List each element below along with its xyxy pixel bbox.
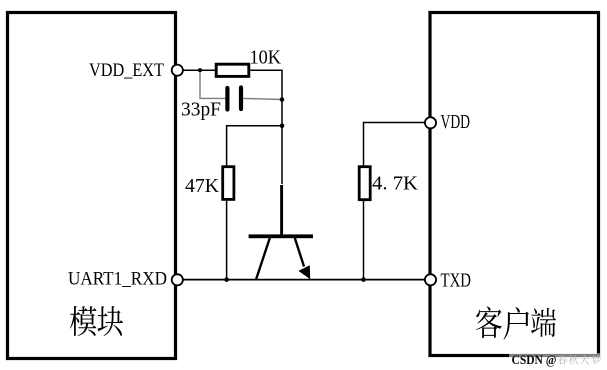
- wire cap right lead (gray): [243, 98, 282, 99]
- wire base-node horizontal: [227, 126, 282, 166]
- transistor Q1 base lead: [280, 185, 283, 235]
- svg-text:4. 7K: 4. 7K: [372, 173, 419, 195]
- svg-text:47K: 47K: [185, 175, 220, 197]
- wire UART1_RXD to TXD rail: [183, 279, 426, 281]
- junction base column / R2 branch: [280, 124, 285, 129]
- capacitor C1 right plate: [239, 88, 243, 110]
- wire VDD pin to R3 top: [364, 123, 426, 167]
- resistor R3 4.7K: [359, 167, 370, 200]
- watermark backdrop: [509, 353, 603, 365]
- wire cap left lead (gray): [200, 70, 225, 98]
- junction R2 / rail: [224, 277, 229, 282]
- svg-text:UART1_RXD: UART1_RXD: [68, 269, 167, 290]
- capacitor C1 left plate: [225, 88, 229, 110]
- pin VDD terminal: [425, 117, 436, 128]
- svg-text:VDD_EXT: VDD_EXT: [89, 60, 164, 81]
- resistor R2 47K: [223, 167, 234, 200]
- label 客户端 (client): [476, 307, 556, 340]
- resistor R1 10K: [216, 64, 249, 76]
- wire R3 bottom to rail: [363, 200, 365, 280]
- svg-text:10K: 10K: [250, 47, 282, 69]
- pin TXD terminal: [425, 274, 436, 285]
- transistor Q1 base bar: [249, 234, 313, 238]
- svg-text:CSDN @: CSDN @: [512, 353, 557, 367]
- pin VDD_EXT terminal: [172, 65, 183, 76]
- junction at VDD_EXT/R1/C1 node: [198, 68, 202, 72]
- watermark CSDN @春秋大梦: [512, 353, 602, 367]
- module box (模块): [8, 13, 176, 359]
- svg-text:33pF: 33pF: [181, 99, 221, 121]
- transistor Q1 emitter leg: [295, 238, 304, 267]
- pin UART1_RXD terminal: [172, 274, 183, 285]
- transistor Q1 emitter arrowhead: [298, 265, 310, 279]
- transistor Q1 collector leg: [256, 238, 270, 279]
- label 模块 (module): [70, 306, 123, 336]
- svg-text:VDD: VDD: [441, 111, 471, 133]
- client box (客户端): [430, 13, 599, 356]
- junction R3 / rail: [361, 277, 366, 282]
- wire VDD_EXT pin to R1: [182, 69, 216, 71]
- wire R1 right to corner down to base column: [250, 70, 283, 184]
- junction C1 right / base column: [280, 97, 285, 102]
- wire R2 bottom to RXD rail: [226, 200, 228, 280]
- svg-text:TXD: TXD: [441, 270, 472, 292]
